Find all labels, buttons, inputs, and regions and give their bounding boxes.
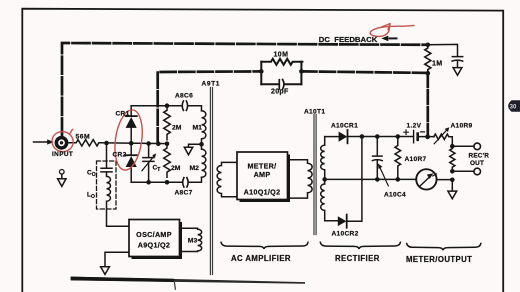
svg-text:A10CR2: A10CR2 bbox=[332, 231, 359, 238]
node 1M bottom bbox=[426, 71, 431, 76]
resistor 2M lower bbox=[164, 144, 171, 178]
wire tank lead bbox=[106, 143, 108, 168]
terminal REC'R OUT bottom bbox=[474, 168, 481, 175]
node A10T1 center tap bbox=[322, 177, 327, 182]
capacitor 20pF bbox=[261, 83, 301, 85]
red annotation ellipse CR1 CR2 bbox=[111, 108, 145, 172]
wire osc ground lead bbox=[105, 252, 129, 266]
wire feedback riser bbox=[426, 73, 429, 136]
box OSC/AMP bbox=[129, 220, 180, 257]
svg-text:10M: 10M bbox=[274, 52, 289, 59]
node bottom rail CT bbox=[146, 180, 151, 185]
node M1 M2 junction bbox=[199, 142, 204, 147]
input arrow bbox=[34, 141, 48, 143]
node bottom rail 2M bbox=[165, 180, 170, 185]
meter M bbox=[416, 169, 436, 189]
node 10M left bbox=[259, 69, 264, 74]
svg-text:1M: 1M bbox=[432, 61, 442, 68]
winding A9T1 secondary bbox=[217, 162, 237, 196]
node out bottom bbox=[450, 169, 455, 174]
capacitor top-right bbox=[452, 57, 463, 62]
svg-text:CR1: CR1 bbox=[116, 111, 130, 118]
node R7 bottom bbox=[396, 177, 401, 182]
resistor 2M upper bbox=[164, 106, 171, 140]
resistor A10R7 bbox=[395, 137, 401, 180]
svg-text:CR2: CR2 bbox=[113, 152, 127, 159]
node 10M right bbox=[299, 69, 304, 74]
resistor 10M bbox=[261, 59, 302, 65]
svg-text:56M: 56M bbox=[76, 133, 91, 140]
arrow A10C4 label bbox=[380, 168, 388, 186]
brace AC AMPLIFIER bbox=[221, 242, 308, 249]
svg-text:A10R9: A10R9 bbox=[451, 123, 473, 130]
diode CR1 bbox=[130, 106, 132, 116]
wire to top-right capacitor bbox=[428, 44, 458, 56]
svg-text:INPUT: INPUT bbox=[52, 151, 73, 158]
node riser CR2 bbox=[360, 134, 365, 139]
ground output bbox=[448, 180, 457, 199]
page edge artifact bottom bbox=[71, 277, 305, 284]
svg-text:30: 30 bbox=[510, 104, 517, 110]
page tab 30 bbox=[508, 100, 520, 111]
wire main rail bbox=[100, 142, 167, 145]
ground osc bbox=[101, 267, 110, 275]
wire feedback lower left bbox=[158, 71, 262, 143]
winding M3 bbox=[182, 228, 202, 251]
node rail 2M bbox=[165, 141, 170, 146]
capacitor A8C6 bbox=[182, 101, 187, 110]
terminal REC'R OUT top bbox=[474, 143, 481, 150]
wire CR2 riser bbox=[347, 137, 362, 222]
resistor output bbox=[450, 146, 455, 171]
svg-text:A8C7: A8C7 bbox=[175, 190, 193, 197]
svg-text:DC FEEDBACK: DC FEEDBACK bbox=[319, 35, 378, 44]
wire out top bbox=[452, 145, 474, 147]
ground M1 M2 bbox=[184, 144, 201, 155]
svg-text:OSC/AMP: OSC/AMP bbox=[136, 230, 172, 239]
inductor LO bbox=[107, 172, 130, 226]
svg-text:2M: 2M bbox=[172, 125, 182, 132]
capacitor A10C4 bbox=[372, 137, 382, 180]
capacitor CT variable bbox=[143, 144, 154, 183]
node meter ground bbox=[450, 178, 455, 183]
svg-text:A9Q1/Q2: A9Q1/Q2 bbox=[138, 241, 170, 250]
svg-text:A9T1: A9T1 bbox=[202, 81, 221, 88]
resistor 56M bbox=[68, 140, 100, 146]
svg-text:M1: M1 bbox=[193, 125, 203, 132]
svg-text:A8C6: A8C6 bbox=[175, 93, 193, 100]
node rail tank bbox=[104, 141, 109, 146]
winding A10T1 secondary lower bbox=[321, 179, 338, 220]
transformer A9T1 core bbox=[210, 88, 212, 275]
svg-text:M2: M2 bbox=[190, 165, 200, 172]
input connector J1 bbox=[55, 136, 69, 150]
svg-text:A10CR1: A10CR1 bbox=[331, 123, 358, 130]
tank dashed box bbox=[97, 161, 117, 209]
ground terminal below input bbox=[60, 170, 65, 175]
svg-text:RECTIFIER: RECTIFIER bbox=[335, 254, 380, 263]
wire out bottom bbox=[452, 170, 474, 172]
svg-text:REC'R: REC'R bbox=[469, 153, 490, 160]
node R7 top bbox=[396, 134, 401, 139]
box METER/AMP bbox=[237, 152, 288, 200]
wire dc feedback top bbox=[62, 43, 428, 136]
resistor A10R9 variable bbox=[434, 134, 453, 146]
diode CR2 bbox=[126, 154, 137, 156]
wire bottom rail osc bbox=[131, 177, 201, 182]
node rail CT bbox=[146, 141, 151, 146]
winding A10T1 primary bbox=[290, 160, 312, 198]
resistor 1M bbox=[425, 45, 431, 73]
svg-text:20pF: 20pF bbox=[271, 89, 289, 96]
wire top rail osc bbox=[131, 106, 201, 111]
node rail feedback bbox=[156, 141, 161, 146]
diode A10CR2 bbox=[338, 216, 347, 226]
brace RECTIFIER bbox=[320, 242, 400, 249]
winding M2 bbox=[202, 144, 206, 177]
svg-text:METER/OUTPUT: METER/OUTPUT bbox=[406, 255, 472, 264]
node 1M top bbox=[426, 43, 431, 48]
wire rectifier top rail bbox=[348, 136, 414, 138]
wire feedback lower right bbox=[301, 71, 427, 73]
winding M1 bbox=[202, 111, 206, 145]
node rail CR bbox=[129, 141, 134, 146]
node top rail 2M bbox=[165, 103, 170, 108]
winding A10T1 secondary upper bbox=[321, 137, 325, 180]
svg-text:2M: 2M bbox=[171, 165, 181, 172]
svg-text:A10Q1/Q2: A10Q1/Q2 bbox=[244, 187, 281, 196]
svg-text:M3: M3 bbox=[188, 238, 198, 245]
box OSC/AMP shadow bbox=[132, 222, 183, 259]
svg-text:AC AMPLIFIER: AC AMPLIFIER bbox=[231, 254, 291, 263]
wire center tap rail bbox=[325, 178, 417, 180]
arrow after DC FEEDBACK bbox=[381, 36, 388, 42]
svg-text:AMP: AMP bbox=[254, 170, 271, 179]
battery 1.2V bbox=[404, 130, 425, 134]
node out top bbox=[450, 144, 455, 149]
red annotation circle input bbox=[50, 129, 75, 154]
svg-text:1.2V: 1.2V bbox=[407, 123, 422, 130]
node C4 top bbox=[375, 134, 380, 139]
svg-text:A10R7: A10R7 bbox=[405, 156, 427, 163]
box METER/AMP shadow bbox=[240, 155, 291, 203]
red annotation arrow top bbox=[370, 24, 414, 37]
node battery riser bbox=[425, 134, 430, 139]
10M 20pF loop box sides bbox=[261, 62, 301, 84]
transformer A10T1 core bbox=[314, 115, 316, 235]
svg-text:A10T1: A10T1 bbox=[304, 109, 325, 116]
brace METER/OUTPUT bbox=[407, 244, 481, 251]
svg-text:A10C4: A10C4 bbox=[384, 192, 406, 199]
node C4 bottom bbox=[375, 177, 380, 182]
capacitor CO bbox=[101, 168, 112, 172]
capacitor A8C7 bbox=[183, 178, 188, 187]
diode A10CR1 bbox=[325, 136, 339, 138]
svg-text:OUT: OUT bbox=[470, 160, 484, 167]
ground top-right bbox=[453, 61, 462, 76]
wire meter right bbox=[437, 179, 453, 181]
